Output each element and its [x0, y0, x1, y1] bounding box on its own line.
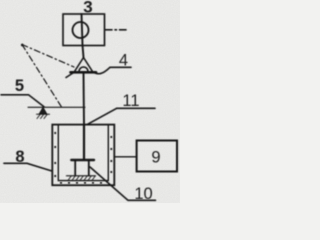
svg-text:10: 10 [134, 185, 152, 203]
svg-text:5: 5 [15, 77, 24, 95]
svg-text:4: 4 [119, 52, 128, 70]
svg-text:9: 9 [151, 149, 160, 167]
svg-text:8: 8 [15, 148, 24, 166]
svg-text:3: 3 [83, 0, 92, 17]
svg-text:11: 11 [122, 92, 139, 110]
